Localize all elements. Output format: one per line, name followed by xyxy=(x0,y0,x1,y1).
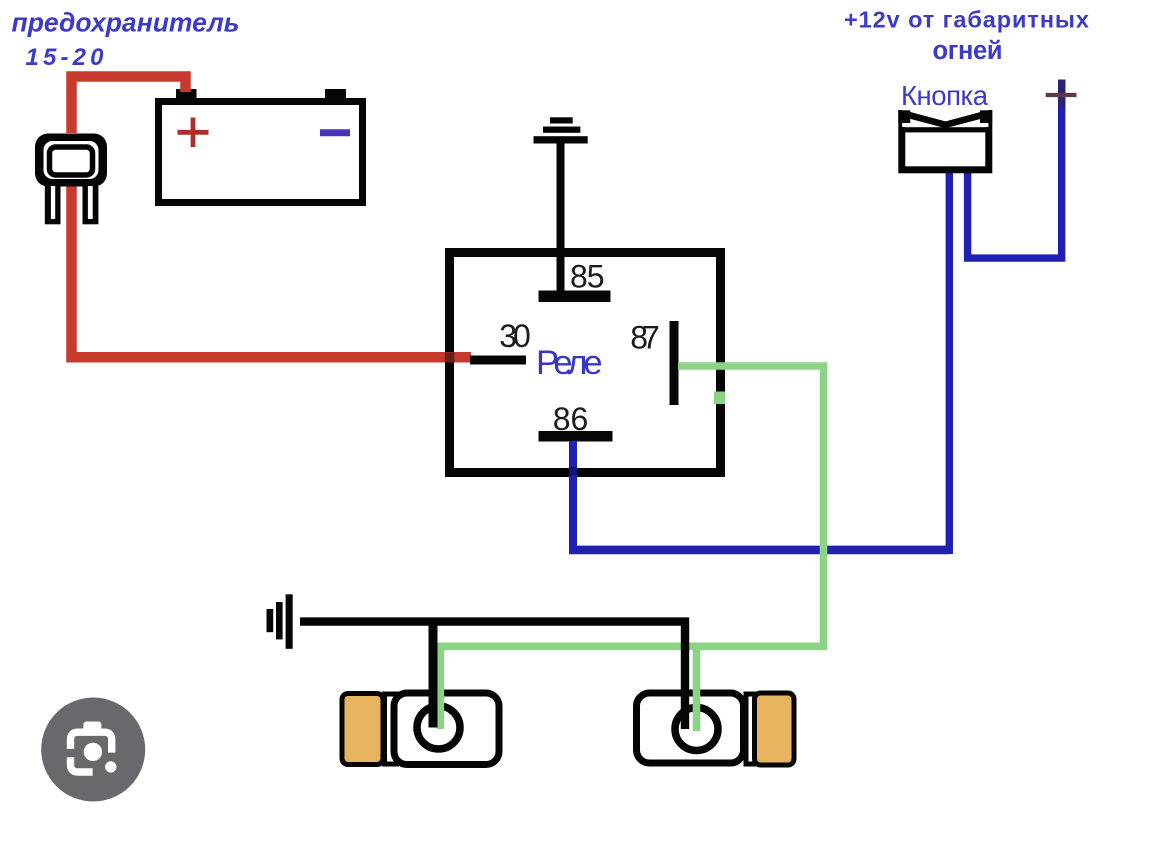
battery plus xyxy=(178,118,209,148)
svg-text:Реле: Реле xyxy=(536,344,603,382)
svg-text:+12v от габаритных: +12v от габаритных xyxy=(844,7,1089,33)
svg-text:предохранитель: предохранитель xyxy=(12,8,240,38)
ground bottom xyxy=(267,594,293,649)
relay pin 85 xyxy=(539,291,611,303)
camera lens icon xyxy=(41,698,145,802)
relay box xyxy=(450,253,721,473)
button symbol xyxy=(898,106,992,170)
fuse holder xyxy=(35,134,107,225)
relay pin 87 xyxy=(670,321,679,405)
plus from marker lights xyxy=(1058,80,1065,108)
ground top xyxy=(534,117,588,291)
wire red fuse-bottom to relay pin 30 xyxy=(72,185,472,357)
blue-black crossing patch xyxy=(569,466,577,475)
relay pin 30 xyxy=(470,356,526,365)
right fog lamp xyxy=(637,693,795,765)
left fog lamp xyxy=(342,693,499,765)
wire black drop to left lamp xyxy=(429,622,438,728)
wire green relay 87 to lamps xyxy=(440,366,823,729)
red-black crossing patch xyxy=(445,352,455,362)
svg-text:15-20: 15-20 xyxy=(26,44,105,71)
svg-text:огней: огней xyxy=(933,37,1003,65)
green stub on relay border xyxy=(714,392,725,405)
wire red overlap on relay border xyxy=(445,352,471,363)
wire black ground to lamps xyxy=(300,622,685,729)
svg-text:87: 87 xyxy=(630,319,660,355)
svg-text:30: 30 xyxy=(499,318,531,354)
wire green branch to right lamp xyxy=(693,646,701,731)
svg-text:86: 86 xyxy=(553,401,589,437)
battery xyxy=(159,102,363,203)
battery minus xyxy=(320,129,350,136)
wire blue relay 86 to button left leg xyxy=(569,441,577,550)
wire red fuse-top to battery xyxy=(72,77,186,134)
wire blue button right leg to plus xyxy=(968,80,1062,259)
svg-text:85: 85 xyxy=(570,259,605,295)
relay pin 86 xyxy=(539,431,613,442)
